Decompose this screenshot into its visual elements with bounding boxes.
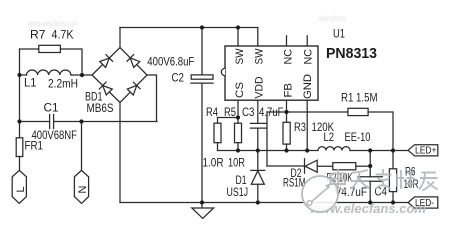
wire CS pin down <box>237 100 239 117</box>
diode bridge lower-left <box>99 82 112 95</box>
wire R7 loop right <box>60 49 82 75</box>
wire bridge bottom vertical <box>119 103 121 203</box>
resistor R6 <box>389 169 396 192</box>
capacitor C3 <box>250 123 266 128</box>
node FB <box>284 110 288 114</box>
wire R3 bottom <box>286 144 288 150</box>
wire SW pin 1 <box>237 28 239 47</box>
svg-text:R1 1.5M: R1 1.5M <box>341 91 378 105</box>
svg-text:RS1M: RS1M <box>283 176 306 190</box>
svg-text:R5: R5 <box>224 105 236 119</box>
wire C2 bottom <box>201 83 203 202</box>
svg-text:L2: L2 <box>324 130 335 144</box>
wire R2 to C4 node <box>356 165 370 167</box>
capacitor C4 <box>358 177 382 182</box>
wire L1 left stub <box>20 74 27 76</box>
node ground rail R6 <box>391 200 395 204</box>
wire C2 top <box>201 28 203 75</box>
node ground rail D1 <box>256 200 260 204</box>
U1 pin1 notch <box>221 68 225 75</box>
inductor L1 <box>27 70 71 75</box>
wire SW pin 2 <box>257 28 259 47</box>
svg-text:R3: R3 <box>294 120 306 134</box>
diode bridge upper-left <box>99 55 112 68</box>
watermark chinese characters <box>331 169 438 191</box>
wire R4 top <box>217 118 219 124</box>
svg-text:L1: L1 <box>24 76 37 90</box>
wire C4 bottom <box>369 181 371 202</box>
svg-text:SW: SW <box>254 48 266 65</box>
node R3 bottom <box>284 148 288 152</box>
wire C4 node vertical <box>369 151 371 177</box>
wire C1 to N line <box>54 121 157 123</box>
diode bridge upper-right <box>127 55 140 68</box>
svg-text:PN8313: PN8313 <box>326 46 377 62</box>
node C2/top rail <box>200 25 204 29</box>
node ground rail C2 <box>200 200 204 204</box>
diode D2 <box>305 160 317 172</box>
svg-text:FR1: FR1 <box>25 139 44 153</box>
node SW/top rail <box>236 25 240 29</box>
wire FB branch vertical <box>266 112 268 166</box>
svg-text:L: L <box>15 186 27 192</box>
svg-text:SW: SW <box>234 48 246 65</box>
resistor R7 <box>39 45 61 52</box>
node N/C1 <box>79 119 83 123</box>
svg-text:NC: NC <box>303 49 315 65</box>
wire R7 loop top left <box>20 48 39 50</box>
op-amp U1 PN8313 body <box>225 46 318 100</box>
wire D1 bottom <box>257 184 259 202</box>
terminal L <box>12 170 26 203</box>
wire C3 to D1 <box>257 128 259 170</box>
diode D1 <box>251 169 265 171</box>
svg-text:400V6.8uF: 400V6.8uF <box>147 55 194 69</box>
resistor R1 <box>348 108 368 115</box>
svg-text:N: N <box>77 186 89 194</box>
svg-text:C1: C1 <box>44 101 59 115</box>
svg-text:VDD: VDD <box>254 76 266 98</box>
svg-text:C2: C2 <box>172 71 185 85</box>
node ground rail C4 <box>368 200 372 204</box>
node L1 left <box>17 73 21 77</box>
svg-text:4.7K: 4.7K <box>52 28 74 42</box>
svg-text:LED+: LED+ <box>415 145 437 157</box>
svg-text:R4: R4 <box>206 105 218 119</box>
resistor FR1 <box>16 138 23 157</box>
wire R6 top <box>392 151 394 169</box>
wire VDD pin down <box>257 100 259 123</box>
node L/C1 <box>17 119 21 123</box>
capacitor C1 <box>50 115 54 129</box>
wire mid rail to LED+ <box>350 150 408 152</box>
terminal LED+ <box>408 145 438 156</box>
wire R6 bottom <box>392 192 394 203</box>
wire left vertical (L line) <box>19 49 21 138</box>
terminal LED- <box>408 197 438 208</box>
node R5 bottom <box>236 148 240 152</box>
wire bottom ground rail <box>120 202 408 204</box>
resistor R2 <box>333 163 356 170</box>
svg-text:EE-10: EE-10 <box>345 130 371 144</box>
svg-text:NC: NC <box>282 49 294 65</box>
inductor L2 <box>318 147 350 151</box>
wire L node to C1 <box>20 121 50 123</box>
svg-text:elecfans: elecfans <box>319 14 346 23</box>
svg-text:R7: R7 <box>30 28 46 42</box>
node D1 top <box>256 148 260 152</box>
wire GND pin down <box>306 100 308 150</box>
wire R4 bottom <box>217 143 219 151</box>
wire to D2 <box>267 165 305 167</box>
wire NC pin 3 stub <box>286 36 288 46</box>
diode bridge lower-right <box>127 82 140 95</box>
svg-text:U1: U1 <box>333 27 345 41</box>
wire bridge top vertical <box>119 28 121 48</box>
wire D2 to R2 <box>317 165 333 167</box>
wire FB pin down <box>286 100 288 112</box>
wire CS to R4 <box>218 117 239 119</box>
wire bridge right vertex to N line <box>147 75 157 122</box>
terminal N <box>74 170 88 203</box>
svg-text:GND: GND <box>302 74 314 99</box>
svg-text:10R: 10R <box>228 156 245 170</box>
svg-text:MB6S: MB6S <box>87 101 114 115</box>
ground <box>201 203 203 209</box>
wire R1 right <box>368 112 393 151</box>
wire FB horizontal <box>267 111 348 113</box>
wire L1 to bridge <box>71 74 92 76</box>
resistor R4 <box>214 123 221 143</box>
svg-text:US1J: US1J <box>227 185 249 199</box>
wire mid rail <box>218 150 319 152</box>
wire R5 top <box>237 118 239 124</box>
wire N drop <box>81 122 83 171</box>
node L1 right <box>80 73 84 77</box>
svg-text:CS: CS <box>234 82 246 98</box>
resistor R3 <box>283 122 290 144</box>
svg-text:2.2mH: 2.2mH <box>48 77 78 91</box>
node R2/C4 <box>368 164 372 168</box>
wire R5 bottom <box>237 143 239 151</box>
wire top rail <box>120 27 258 29</box>
bridge BD1 MB6S diamond <box>92 48 147 103</box>
resistor R5 <box>235 123 242 143</box>
watermark logo circle <box>302 176 338 212</box>
svg-text:1.0R: 1.0R <box>203 156 224 170</box>
svg-text:FB: FB <box>282 83 294 98</box>
svg-text:4.7uF: 4.7uF <box>259 105 284 119</box>
wire NC pin 4 stub <box>306 36 308 46</box>
wire FR1 to L terminal <box>19 157 21 171</box>
capacitor C2 (polarized) <box>191 75 213 79</box>
node R1/R6 rail <box>391 148 395 152</box>
node GND pin rail <box>305 148 309 152</box>
svg-text:C3: C3 <box>242 105 255 119</box>
wire R3 top <box>286 112 288 122</box>
node C4 top rail <box>368 148 372 152</box>
node CS/R5 <box>236 115 240 119</box>
